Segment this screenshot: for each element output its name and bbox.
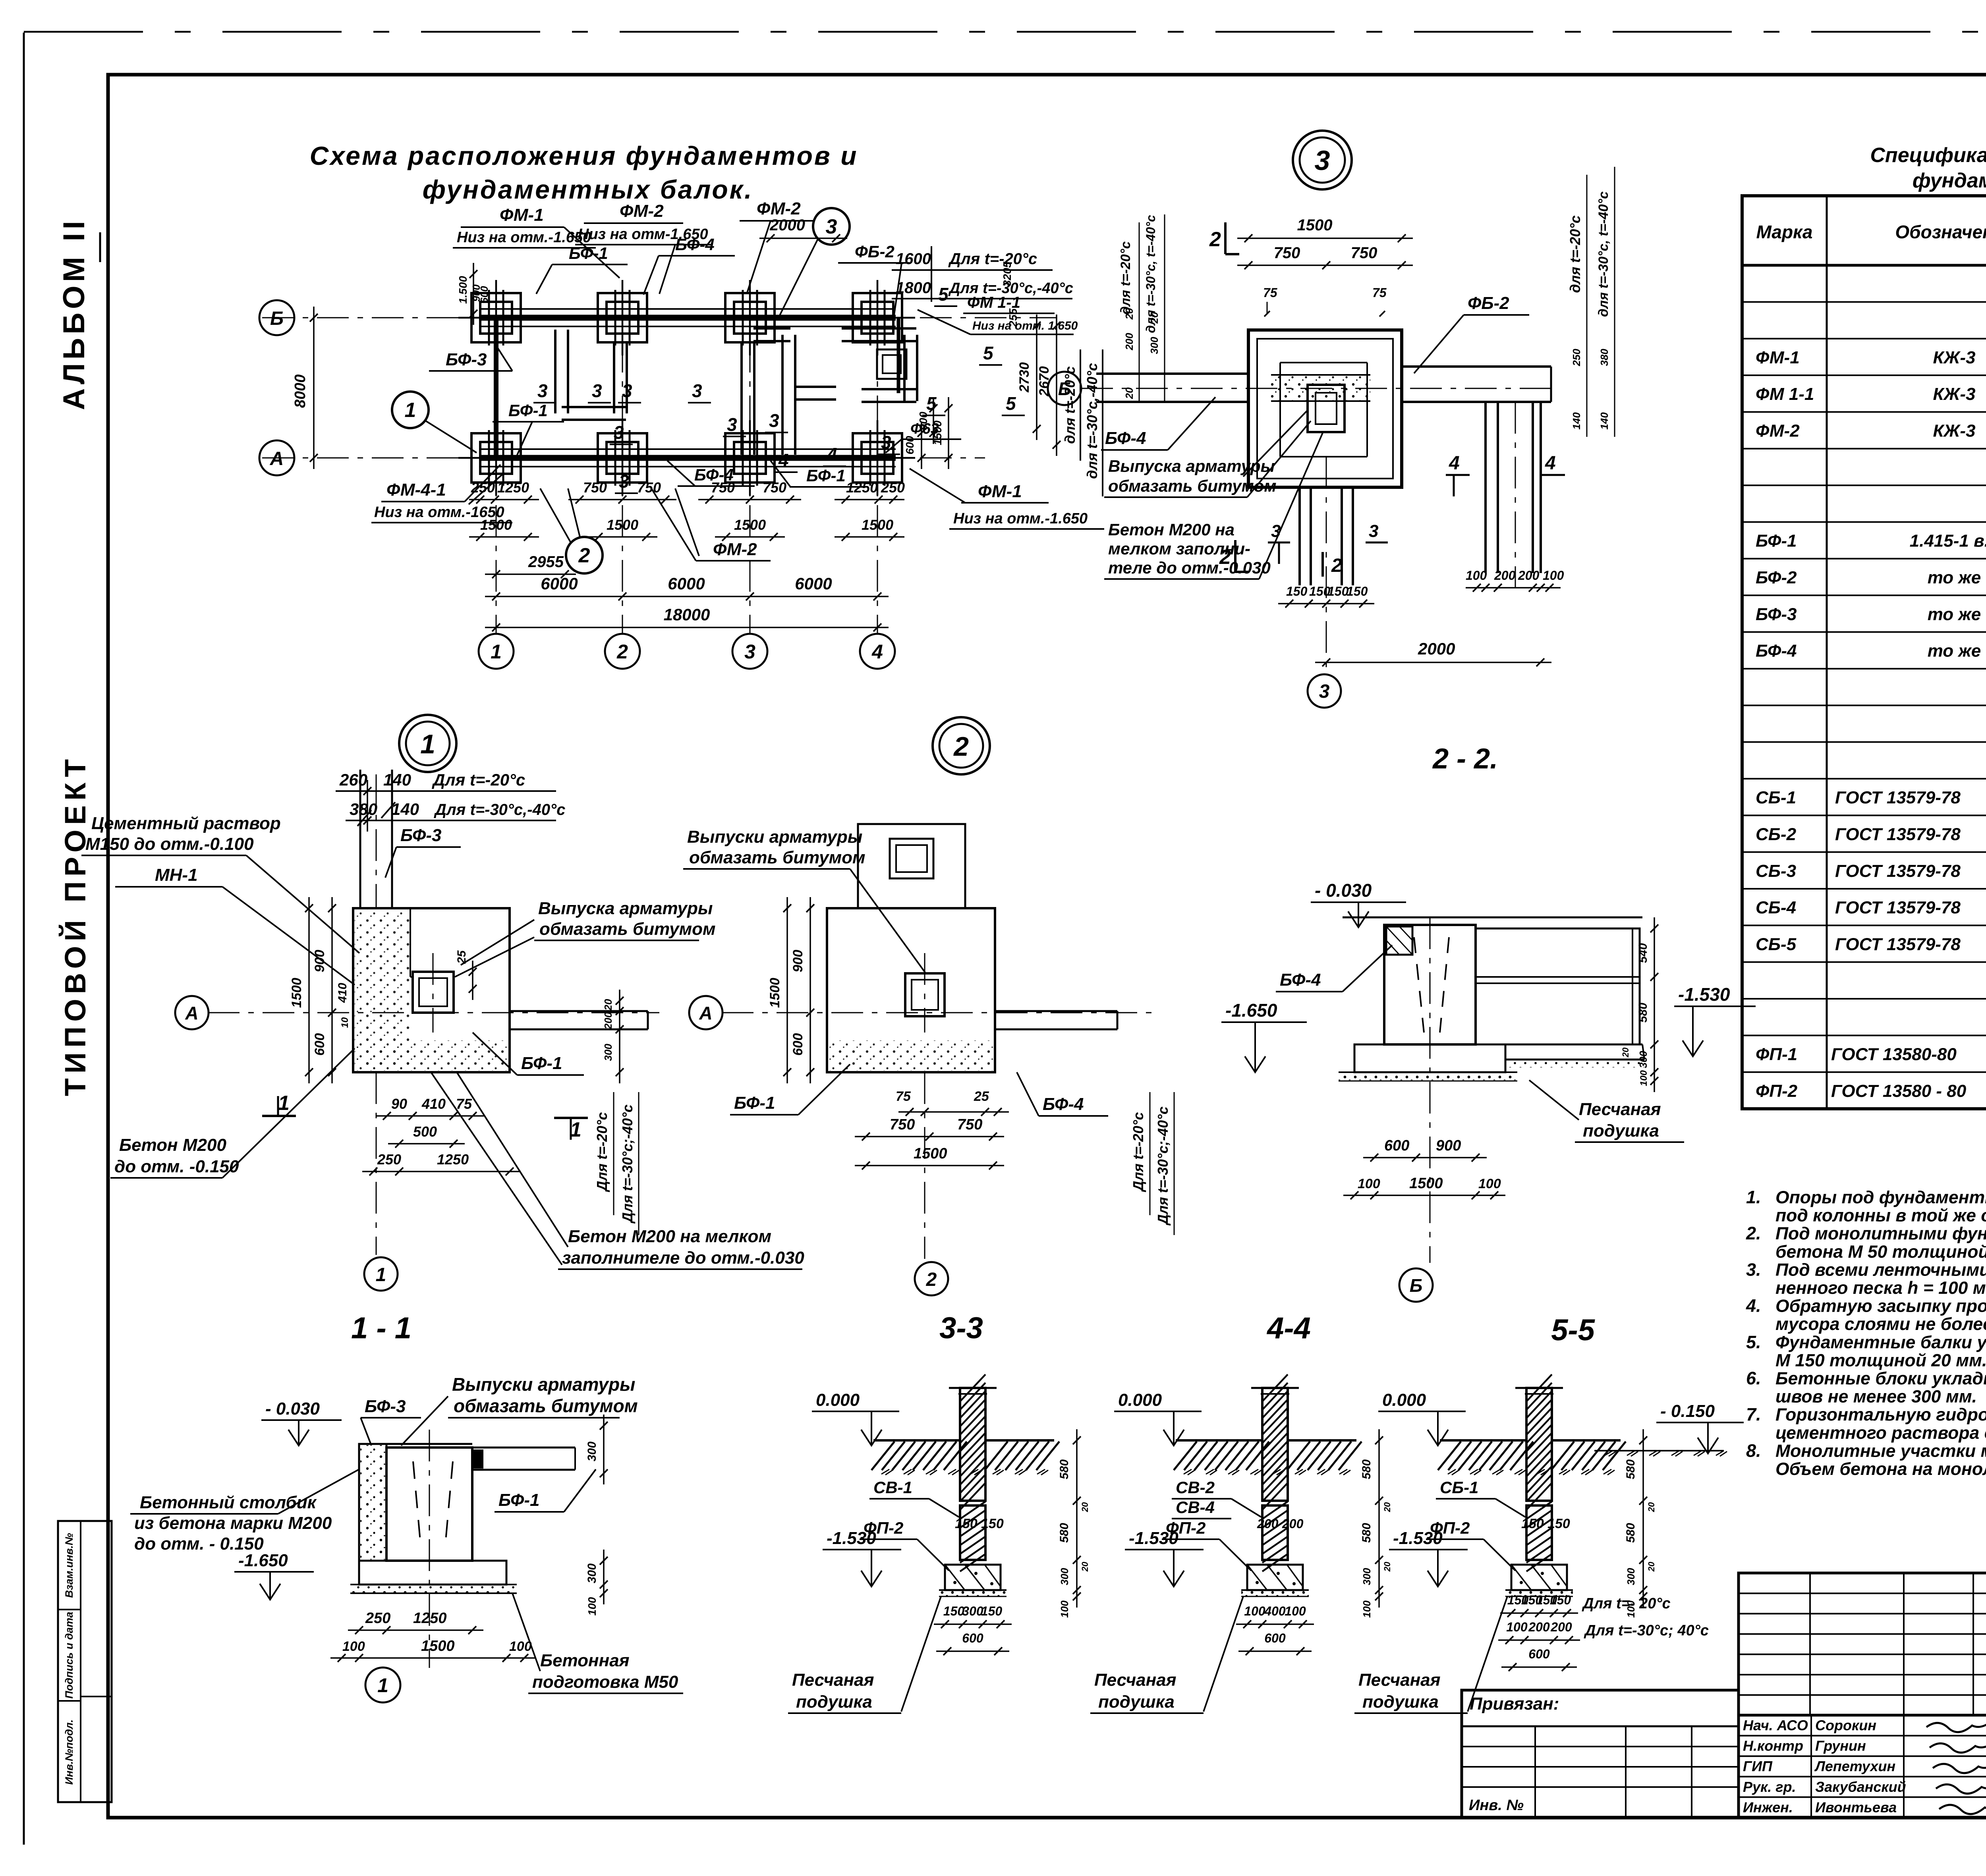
svg-text:3.: 3.: [1746, 1259, 1761, 1280]
plan wall along column 1: [494, 318, 498, 458]
svg-text:мелком заполни-: мелком заполни-: [1108, 539, 1250, 558]
svg-text:для t=-30°с, t=-40°с: для t=-30°с, t=-40°с: [1144, 215, 1158, 333]
svg-text:3205: 3205: [1001, 261, 1013, 286]
svg-text:СВ-1: СВ-1: [873, 1478, 912, 1497]
svg-text:1.415-1 в.1: 1.415-1 в.1: [1910, 531, 1986, 551]
svg-text:ФМ-2: ФМ-2: [1756, 421, 1800, 441]
svg-text:260: 260: [339, 770, 367, 789]
wall detail FP-2 pad: [945, 1565, 1001, 1590]
svg-text:Песчаная: Песчаная: [1094, 1670, 1177, 1690]
svg-text:20: 20: [1080, 1561, 1090, 1572]
svg-text:140: 140: [383, 770, 411, 789]
svg-text:Опоры под фундаментные балки: Опоры под фундаментные балки бетонироват…: [1775, 1188, 1986, 1207]
svg-text:300: 300: [1637, 1051, 1649, 1068]
node 3 bent bars right: [1484, 402, 1487, 573]
svg-text:4.: 4.: [1746, 1296, 1761, 1316]
svg-text:100: 100: [342, 1639, 365, 1654]
svg-text:100: 100: [1361, 1600, 1373, 1618]
wall detail ground hatch right: [1552, 1439, 1621, 1442]
svg-text:18000: 18000: [664, 605, 710, 624]
svg-text:20: 20: [1382, 1561, 1392, 1572]
plan main dim 6000 x3: [485, 596, 889, 597]
svg-text:Спецификация элементов к схеме: Спецификация элементов к схеме расположе…: [1870, 144, 1986, 167]
svg-text:Взам.инв.№: Взам.инв.№: [63, 1533, 75, 1598]
svg-text:150: 150: [943, 1604, 965, 1618]
svg-text:СВ-4: СВ-4: [1176, 1498, 1215, 1517]
wall detail FP-2 pad: [1511, 1565, 1567, 1590]
section 4-4 basement blocks right: [1476, 928, 1640, 1044]
svg-text:ФМ-2: ФМ-2: [757, 199, 801, 218]
svg-text:250: 250: [1571, 349, 1582, 367]
section 4-4 bottom dims 100 1500 100: [1343, 1195, 1505, 1196]
svg-text:Б: Б: [1410, 1275, 1423, 1296]
plan axis A bubble: [259, 440, 294, 475]
plan foundation beams along axis A: [481, 455, 896, 461]
svg-text:Для t=-20°с: Для t=-20°с: [432, 770, 525, 789]
svg-text:410: 410: [421, 1096, 446, 1112]
node 3 inner pad step: [1280, 362, 1367, 363]
uzel 1 concrete column stippled: [359, 1444, 386, 1561]
svg-text:580: 580: [1360, 1523, 1373, 1543]
svg-text:БФ-4: БФ-4: [1043, 1094, 1084, 1114]
svg-text:БФ-4: БФ-4: [1105, 428, 1146, 448]
svg-text:150: 150: [981, 1604, 1003, 1618]
plan dim 2955: [485, 573, 576, 575]
section 1-1 axis A bubble: [175, 996, 209, 1029]
svg-text:20: 20: [1646, 1502, 1656, 1512]
svg-text:3: 3: [769, 410, 779, 431]
svg-text:Цементный раствор: Цементный раствор: [91, 814, 281, 833]
section 3-3 bottom dim 1500: [855, 1165, 1004, 1166]
svg-text:СБ-1: СБ-1: [1756, 788, 1796, 807]
svg-text:200: 200: [1528, 1620, 1550, 1634]
wall detail lower block hatched: [960, 1505, 985, 1560]
svg-text:БФ-3: БФ-3: [400, 826, 442, 845]
svg-text:ГОСТ 13579-78: ГОСТ 13579-78: [1835, 934, 1961, 954]
svg-text:900: 900: [312, 950, 327, 973]
svg-text:0.000: 0.000: [1118, 1390, 1162, 1410]
svg-text:255: 255: [1007, 308, 1019, 327]
svg-text:150: 150: [1521, 1516, 1544, 1531]
svg-text:для t=-20°с: для t=-20°с: [1118, 241, 1133, 315]
svg-text:ГОСТ 13579-78: ГОСТ 13579-78: [1835, 824, 1961, 844]
svg-text:БФ-1: БФ-1: [1756, 531, 1797, 551]
svg-text:900: 900: [917, 411, 929, 430]
svg-text:600: 600: [790, 1033, 806, 1056]
svg-text:20: 20: [1646, 1561, 1656, 1572]
svg-text:то же: то же: [1928, 568, 1981, 587]
plan axis B bubble: [259, 300, 294, 335]
svg-text:540: 540: [1636, 943, 1650, 963]
wall detail ground hatch right: [1288, 1439, 1356, 1442]
svg-text:Бетонная: Бетонная: [540, 1651, 630, 1670]
svg-text:100: 100: [1466, 568, 1487, 583]
svg-text:Выпуски арматуры: Выпуски арматуры: [452, 1374, 635, 1395]
svg-text:СБ-3: СБ-3: [1756, 861, 1796, 881]
svg-text:Нач. АСО: Нач. АСО: [1743, 1717, 1808, 1733]
svg-text:для t=-20°с: для t=-20°с: [1567, 215, 1583, 293]
wall detail top cap: [949, 1387, 997, 1389]
node 3 dim 2000: [1315, 662, 1551, 663]
svg-text:КЖ-3: КЖ-3: [1933, 348, 1976, 367]
svg-text:СБ-1: СБ-1: [1440, 1478, 1478, 1497]
svg-text:А: А: [185, 1003, 198, 1023]
svg-text:Для t=-20°с: Для t=-20°с: [594, 1112, 610, 1192]
section 4-4 bottom dims 600 900: [1363, 1157, 1487, 1158]
svg-text:из бетона марки М200: из бетона марки М200: [134, 1513, 332, 1533]
svg-text:140: 140: [1598, 412, 1610, 430]
section 4-4 wall: [1384, 925, 1476, 1044]
svg-text:300: 300: [602, 1044, 614, 1061]
svg-text:Марка: Марка: [1756, 222, 1812, 242]
svg-text:4-4: 4-4: [1266, 1311, 1311, 1345]
section 1-1 left vertical dims: [331, 897, 333, 1083]
section 1-1 column socket: [413, 972, 454, 1013]
plan column bubbles 1-4: [479, 634, 514, 669]
section 4-4 axis B bubble: [1399, 1268, 1433, 1302]
node 3 wall below pad: [1298, 487, 1301, 585]
svg-text:4: 4: [871, 641, 883, 663]
svg-text:Подпись и дата: Подпись и дата: [63, 1612, 75, 1699]
svg-text:20: 20: [602, 999, 614, 1011]
node 3 beam from left: [1096, 372, 1248, 375]
svg-text:Бетонный столбик: Бетонный столбик: [140, 1493, 317, 1512]
node 3 concrete fill band: [1271, 375, 1370, 401]
plan node 2 bubble: [566, 537, 603, 573]
svg-text:КЖ-3: КЖ-3: [1933, 421, 1976, 441]
svg-text:Закубанский: Закубанский: [1815, 1779, 1906, 1795]
svg-text:0.000: 0.000: [816, 1390, 860, 1410]
node 3 double circle: [1293, 131, 1352, 189]
plan overall dim 18000: [485, 627, 889, 628]
svg-text:5: 5: [938, 284, 949, 305]
svg-text:1500: 1500: [1409, 1175, 1443, 1192]
svg-text:250: 250: [471, 479, 495, 496]
spec table column lines: [1826, 196, 1828, 1109]
section 1-1 foundation block: [353, 908, 510, 1072]
section 3-3 axis A bubble: [689, 996, 723, 1029]
svg-text:750: 750: [890, 1116, 915, 1133]
plan node 1 bubble: [392, 392, 429, 428]
plan wall stubs at pads: [488, 290, 490, 345]
svg-text:2: 2: [1331, 555, 1342, 576]
svg-text:фундаментных балок.: фундаментных балок.: [423, 175, 753, 204]
wall detail lower block hatched: [1262, 1505, 1288, 1560]
wall detail wall hatched column: [1262, 1388, 1288, 1501]
svg-text:500: 500: [413, 1123, 437, 1140]
section 4-4 right pad: [1505, 1044, 1642, 1046]
node 3 column socket: [1308, 385, 1345, 432]
section 4-4 right dim chain: [1654, 917, 1655, 1092]
svg-text:БФ-1: БФ-1: [734, 1093, 775, 1113]
svg-text:фундаментов и фундаментных б: фундаментов и фундаментных балок.: [1913, 169, 1986, 192]
svg-text:ФМ-2: ФМ-2: [620, 201, 664, 221]
svg-text:ГОСТ 13580 - 80: ГОСТ 13580 - 80: [1831, 1081, 1967, 1101]
svg-text:580: 580: [1624, 1523, 1637, 1543]
spec table row lines: [1742, 301, 1986, 303]
svg-text:150: 150: [955, 1516, 978, 1531]
svg-text:580: 580: [1636, 1003, 1650, 1023]
svg-text:для t=-30°с,-40°с: для t=-30°с,-40°с: [1084, 363, 1100, 479]
svg-text:ненного песка h = 100 мм.: ненного песка h = 100 мм.: [1775, 1278, 1986, 1298]
svg-text:БФ-4: БФ-4: [1280, 970, 1321, 990]
svg-text:1: 1: [491, 641, 502, 663]
svg-text:600: 600: [904, 436, 916, 454]
svg-text:Для t=-30°с; 40°с: Для t=-30°с; 40°с: [1584, 1622, 1709, 1639]
svg-text:250: 250: [365, 1610, 390, 1627]
section 4-4 BF-4 block hatched: [1386, 926, 1412, 955]
svg-text:подушка: подушка: [1098, 1692, 1175, 1712]
plan foundation beams along axis B: [481, 315, 896, 321]
plan foundation pad: [853, 293, 902, 342]
svg-text:200: 200: [602, 1012, 614, 1030]
plan interior wall left room: [554, 330, 556, 413]
svg-text:250: 250: [377, 1151, 401, 1168]
title block privyazan table: [1462, 1690, 1739, 1818]
plan bottom dim row 750-750 under col3: [698, 499, 801, 500]
svg-text:ФП-2: ФП-2: [1756, 1081, 1798, 1101]
svg-text:подушка: подушка: [1362, 1692, 1439, 1712]
svg-text:1500: 1500: [767, 978, 782, 1008]
sheet outer left edge line: [23, 33, 25, 1845]
svg-text:150: 150: [981, 1516, 1004, 1531]
svg-text:Песчаная: Песчаная: [1358, 1670, 1441, 1690]
svg-text:БФ-4: БФ-4: [675, 235, 715, 254]
svg-text:3: 3: [727, 414, 737, 435]
svg-text:3: 3: [744, 641, 755, 663]
svg-text:1: 1: [278, 1092, 290, 1115]
svg-text:3-3: 3-3: [939, 1311, 983, 1345]
svg-text:1500: 1500: [931, 420, 944, 445]
node 3 dim 750 750: [1237, 264, 1413, 266]
svg-text:СВ-2: СВ-2: [1176, 1478, 1215, 1497]
wall detail dims beside pad: [1500, 1612, 1578, 1614]
svg-text:1: 1: [377, 1674, 388, 1697]
svg-text:Выпуска арматуры: Выпуска арматуры: [1108, 457, 1275, 475]
uzel 1 main block: [386, 1448, 472, 1561]
title block signatures: [1926, 1722, 1986, 1732]
svg-text:900: 900: [1436, 1137, 1461, 1154]
wall detail ground hatch left: [1176, 1439, 1262, 1442]
svg-text:900: 900: [790, 950, 806, 973]
wall detail grass ticks: [881, 1469, 889, 1474]
svg-text:4: 4: [827, 444, 837, 465]
svg-text:20: 20: [1621, 1047, 1631, 1058]
svg-text:5.: 5.: [1746, 1332, 1761, 1352]
svg-text:БФ-1: БФ-1: [569, 244, 608, 262]
section 4-4 sand layer: [1339, 1072, 1517, 1080]
svg-text:ФМ-1: ФМ-1: [1756, 348, 1800, 367]
wall detail FP-2 pad: [1247, 1565, 1303, 1590]
svg-text:200: 200: [1257, 1517, 1279, 1531]
svg-text:3: 3: [592, 380, 602, 401]
svg-text:ФМ-1: ФМ-1: [500, 205, 544, 225]
uzel 1 prep layer: [350, 1585, 517, 1593]
section 1-1 axis line: [208, 1012, 659, 1013]
wall detail dims beside pad: [1236, 1623, 1314, 1625]
svg-text:75: 75: [1263, 286, 1278, 300]
wall detail block joint: [960, 1500, 985, 1502]
svg-text:3: 3: [1271, 521, 1281, 541]
svg-text:750: 750: [1351, 244, 1377, 262]
svg-text:1.500: 1.500: [457, 276, 469, 304]
plan wall along column 4 right side: [897, 318, 900, 393]
svg-text:мусора слоями не более 2: мусора слоями не более 200 мм с уплотнен…: [1775, 1314, 1986, 1334]
plan foundation pad: [598, 433, 647, 483]
svg-text:200: 200: [1282, 1517, 1304, 1531]
uzel 1 bottom dims 100 1500 100: [330, 1657, 535, 1659]
svg-text:Объем бетона на монолитные: Объем бетона на монолитные участки - 1.3…: [1775, 1459, 1986, 1479]
svg-text:ГОСТ 13579-78: ГОСТ 13579-78: [1835, 861, 1961, 881]
plan bottom dim row 250-1250 under col1: [469, 499, 539, 500]
svg-text:3: 3: [537, 380, 548, 401]
svg-text:подушка: подушка: [796, 1692, 872, 1712]
node 3 main pad square: [1248, 330, 1402, 487]
svg-text:150: 150: [1550, 1593, 1571, 1607]
svg-text:300: 300: [585, 1442, 599, 1461]
svg-text:2730: 2730: [1017, 362, 1032, 393]
section 1-1 bottom dims row1: [376, 1115, 484, 1117]
plan bottom dim row 750-750 under col2: [568, 499, 676, 500]
wall detail right dim chain: [1642, 1429, 1644, 1608]
section 3-3 foundation block: [827, 908, 995, 1072]
wall detail top cap: [1251, 1387, 1299, 1389]
svg-text:20: 20: [1123, 387, 1135, 399]
svg-text:100: 100: [1244, 1604, 1265, 1618]
section 1-1 bottom bubble 1: [376, 1072, 377, 1255]
svg-text:3: 3: [692, 380, 702, 401]
sheet outer top dashed line: [24, 31, 1986, 33]
svg-text:М 150 толщиной 20 мм.: М 150 толщиной 20 мм.: [1775, 1351, 1986, 1370]
svg-text:АЛЬБОМ II: АЛЬБОМ II: [57, 217, 91, 410]
svg-text:750: 750: [583, 479, 607, 496]
svg-text:Ивонтьева: Ивонтьева: [1815, 1799, 1897, 1815]
svg-text:3: 3: [1315, 145, 1330, 176]
svg-text:то же: то же: [1928, 604, 1981, 624]
svg-text:СБ-2: СБ-2: [1756, 824, 1797, 844]
svg-text:ГОСТ 13580-80: ГОСТ 13580-80: [1831, 1045, 1957, 1064]
plan foundation pad: [598, 293, 647, 342]
plan foundation pad: [725, 433, 775, 483]
svg-text:ФП-2: ФП-2: [864, 1519, 903, 1537]
node 3 axis B bubble: [1048, 372, 1081, 405]
svg-text:под колонны в той же оп: под колонны в той же опалубке.: [1775, 1206, 1986, 1226]
svg-text:100: 100: [509, 1639, 532, 1654]
svg-text:Бетон М200 на мелком: Бетон М200 на мелком: [568, 1227, 771, 1246]
svg-text:750: 750: [1274, 244, 1300, 262]
svg-text:ФМ-4-1: ФМ-4-1: [386, 480, 446, 500]
svg-text:600: 600: [1384, 1137, 1409, 1154]
svg-text:150: 150: [1547, 1516, 1570, 1531]
svg-text:Бетон М200 на: Бетон М200 на: [1108, 520, 1234, 539]
svg-text:6.: 6.: [1746, 1368, 1761, 1388]
svg-text:5: 5: [983, 343, 994, 363]
svg-text:для t=-30°с, t=-40°с: для t=-30°с, t=-40°с: [1596, 191, 1611, 317]
svg-text:заполнителе до отм.-0.030: заполнителе до отм.-0.030: [562, 1248, 804, 1268]
svg-text:Обратную засыпку производить: Обратную засыпку производить грунтом без…: [1775, 1297, 1986, 1316]
svg-text:ФБ-2: ФБ-2: [855, 242, 894, 261]
svg-text:140: 140: [1571, 412, 1582, 430]
node 3 bottom dim 150x4: [1278, 603, 1374, 604]
svg-text:3: 3: [619, 471, 629, 492]
svg-text:Привязан:: Привязан:: [1470, 1694, 1559, 1714]
svg-text:ФП-2: ФП-2: [1430, 1519, 1470, 1537]
section 3-3 upper panel: [858, 824, 965, 908]
section 4-4 wall dashed socket lines: [1414, 937, 1424, 1033]
svg-text:410: 410: [336, 983, 349, 1003]
svg-text:3: 3: [826, 215, 837, 238]
svg-text:4: 4: [1545, 453, 1556, 474]
svg-text:2: 2: [926, 1269, 937, 1290]
svg-text:Горизонтальную гидроизоляцию: Горизонтальную гидроизоляцию стен выполн…: [1775, 1405, 1986, 1424]
wall detail ground hatch left: [873, 1439, 960, 1442]
svg-text:2: 2: [1209, 228, 1221, 251]
svg-text:3: 3: [622, 380, 632, 401]
section 4-4 footing: [1354, 1044, 1505, 1072]
section 1-1 bottom dim 500: [388, 1143, 465, 1145]
svg-text:100: 100: [1478, 1176, 1501, 1191]
svg-text:Н.контр: Н.контр: [1743, 1738, 1803, 1754]
svg-text:Низ на отм. 1.650: Низ на отм. 1.650: [972, 319, 1078, 332]
svg-text:- 0.030: - 0.030: [265, 1399, 320, 1419]
svg-text:2: 2: [616, 641, 628, 663]
svg-text:75: 75: [1372, 286, 1387, 300]
plan interior wall right room: [842, 327, 916, 330]
svg-text:6000: 6000: [541, 574, 578, 593]
svg-text:Выпуски арматуры: Выпуски арматуры: [687, 827, 862, 847]
svg-text:380: 380: [350, 800, 377, 818]
node 3 beam to right: [1402, 365, 1551, 368]
svg-text:БФ-3: БФ-3: [1756, 604, 1797, 624]
svg-text:- 0.150: - 0.150: [1660, 1401, 1715, 1421]
svg-text:обмазать битумом: обмазать битумом: [539, 919, 716, 939]
svg-text:300: 300: [1361, 1568, 1373, 1585]
svg-text:А: А: [270, 448, 284, 469]
svg-text:2955: 2955: [528, 553, 564, 571]
svg-text:Обозначение: Обозначение: [1895, 222, 1986, 242]
svg-text:2: 2: [578, 544, 590, 567]
svg-text:6000: 6000: [668, 574, 705, 593]
svg-text:750: 750: [957, 1116, 982, 1133]
svg-text:Для t=-20°с: Для t=-20°с: [948, 250, 1037, 268]
svg-text:Инв. №: Инв. №: [1469, 1797, 1524, 1814]
svg-text:БФ-2: БФ-2: [1756, 568, 1797, 587]
svg-text:1: 1: [405, 399, 416, 422]
svg-text:75: 75: [456, 1096, 472, 1112]
svg-text:200: 200: [1550, 1620, 1572, 1634]
uzel 1 beam right: [472, 1447, 575, 1449]
svg-text:1500: 1500: [421, 1638, 455, 1654]
svg-text:- 0.030: - 0.030: [1315, 880, 1372, 901]
svg-text:400: 400: [1264, 1604, 1286, 1618]
svg-text:380: 380: [1598, 349, 1610, 366]
plan node 3 bubble with leader: [813, 208, 850, 245]
svg-text:3: 3: [614, 422, 624, 443]
section 3-3 left vertical dims: [809, 897, 811, 1083]
svg-text:2.: 2.: [1746, 1223, 1761, 1243]
svg-text:БФ-1: БФ-1: [498, 1490, 540, 1510]
svg-text:подготовка М50: подготовка М50: [532, 1672, 678, 1692]
svg-text:ФБ-2: ФБ-2: [1468, 293, 1509, 313]
svg-text:-1.530: -1.530: [1678, 984, 1730, 1005]
svg-text:1250: 1250: [497, 479, 529, 496]
svg-text:3: 3: [1369, 521, 1378, 541]
svg-text:1: 1: [420, 729, 435, 759]
svg-text:150: 150: [1286, 584, 1308, 598]
svg-text:580: 580: [1058, 1459, 1071, 1479]
svg-text:5: 5: [1006, 393, 1016, 414]
svg-text:Песчаная: Песчаная: [792, 1670, 874, 1690]
